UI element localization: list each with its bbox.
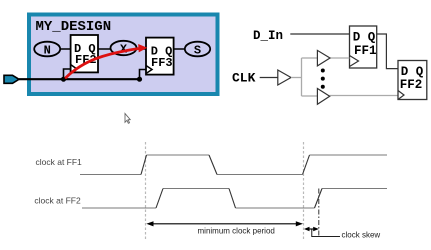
- svg-text:CLK: CLK: [232, 71, 256, 86]
- svg-text:FF2: FF2: [400, 78, 423, 92]
- svg-text:S: S: [194, 43, 201, 57]
- svg-text:clock at FF2: clock at FF2: [34, 196, 81, 206]
- svg-text:clock at FF1: clock at FF1: [36, 157, 83, 167]
- svg-text:MY_DESIGN: MY_DESIGN: [36, 19, 112, 35]
- svg-text:D Q: D Q: [401, 65, 424, 79]
- svg-text:FF3: FF3: [151, 56, 173, 70]
- svg-text:N: N: [44, 43, 51, 57]
- svg-text:D Q: D Q: [353, 31, 376, 45]
- svg-text:FF1: FF1: [354, 44, 377, 58]
- svg-text:minimum clock period: minimum clock period: [198, 227, 275, 236]
- svg-text:D_In: D_In: [253, 29, 283, 43]
- svg-text:clock skew: clock skew: [342, 231, 381, 240]
